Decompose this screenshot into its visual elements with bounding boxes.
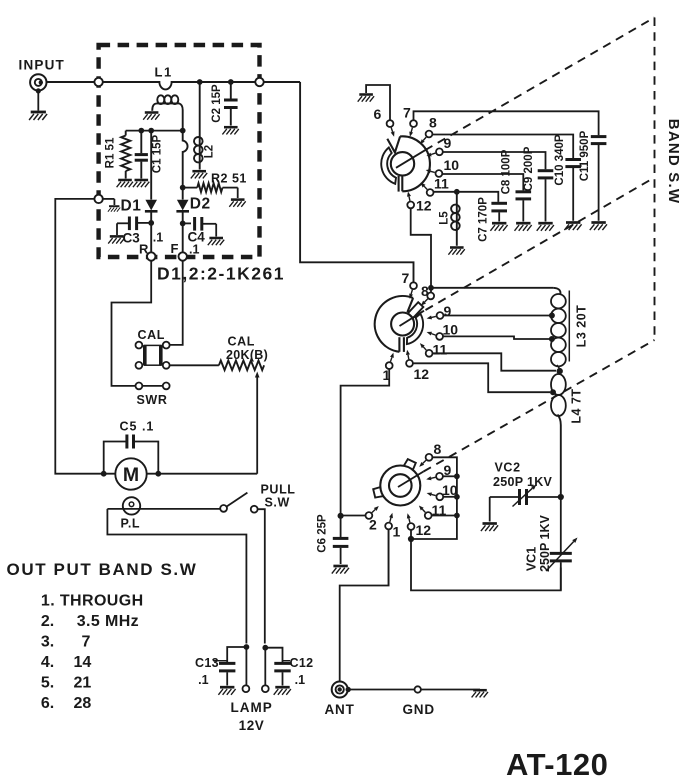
capacitor C11 950P <box>591 137 607 221</box>
svg-text:INPUT: INPUT <box>19 58 66 73</box>
capacitor C10 340P <box>565 160 581 221</box>
ground at C4 <box>208 238 224 245</box>
wafer a contact 12 arrow <box>407 192 411 201</box>
svg-text:ANT: ANT <box>325 702 355 717</box>
wafer c contact 1 <box>385 523 392 530</box>
label ANT <box>325 702 355 717</box>
resistor R1 51 <box>121 131 130 179</box>
inductor L2 <box>194 82 203 170</box>
wire wafer b contact 8 to L3 top <box>431 287 553 289</box>
label L4 7T <box>570 388 584 423</box>
node main line at box left edge <box>94 78 102 86</box>
label R <box>139 242 149 257</box>
junction row / pickup right end <box>180 128 185 133</box>
label GND <box>403 702 435 717</box>
wire wafer a contact 11 to C7 <box>434 192 499 202</box>
junction bus / 9 <box>455 474 460 479</box>
label 1 (wafer b) <box>383 367 391 383</box>
label 12 (wafer b) <box>414 366 430 382</box>
svg-text:VC2: VC2 <box>495 461 521 475</box>
svg-text:SWR: SWR <box>137 393 168 407</box>
wire D1 to node R <box>150 223 152 253</box>
capacitor C4 .1 <box>183 217 217 237</box>
switch PULL S.W contact left <box>220 505 227 512</box>
variable capacitor VC2 250P 1KV <box>490 485 537 522</box>
ground at C13 <box>218 687 235 695</box>
contact CAL top-right <box>163 342 170 349</box>
L3 core dashed line <box>0 0 569 362</box>
wire wafer a contact 6 to ground <box>366 85 390 120</box>
ground at C12 <box>274 687 291 695</box>
capacitor C6 25P <box>333 516 349 564</box>
label .1 (C12) <box>295 673 305 687</box>
label OUT PUT BAND S.W <box>7 560 198 579</box>
rotary wafer c wiper line <box>398 472 424 488</box>
wire wafer b contact 10 to L3 tap <box>443 336 552 339</box>
ground at C7 <box>490 223 507 231</box>
ground at L5 <box>448 248 464 255</box>
pickup winding of coupler <box>152 95 182 130</box>
svg-text:LAMP: LAMP <box>231 700 273 715</box>
svg-text:D1,2:2-1K261: D1,2:2-1K261 <box>157 264 285 284</box>
label C1 15P <box>152 134 164 173</box>
svg-text:CAL: CAL <box>228 335 256 349</box>
ground at C2 <box>222 127 238 134</box>
svg-text:C4: C4 <box>188 230 206 245</box>
junction main line / C2 <box>228 80 233 85</box>
legend 4. 14 <box>41 654 91 671</box>
label CAL (pot) <box>228 335 256 349</box>
wafer c contact 11 <box>425 512 432 519</box>
wire GND terminal to ground <box>421 689 480 691</box>
wire VC2 to main vertical <box>527 496 561 498</box>
label C10 340P <box>554 134 566 185</box>
svg-text:9: 9 <box>444 135 452 151</box>
ANT connector <box>332 682 351 698</box>
wafer a contact 11 <box>427 189 434 196</box>
label C4 <box>188 230 206 245</box>
label C2 15P <box>211 84 223 123</box>
meter M <box>115 458 146 489</box>
band switch gang dashed line (right vertical) <box>654 18 656 341</box>
wafer a contact 10 arrow <box>426 169 435 173</box>
ground at input connector <box>29 112 47 120</box>
svg-text:.1: .1 <box>153 231 163 245</box>
svg-text:CAL: CAL <box>138 328 166 342</box>
svg-text:VC1: VC1 <box>525 547 539 571</box>
wafer a contact 11 arrow <box>421 183 428 190</box>
svg-text:GND: GND <box>403 702 435 717</box>
wire D2 branch with loop <box>183 131 188 200</box>
label C13 <box>195 656 219 670</box>
contact SWR left <box>136 383 143 390</box>
svg-text:C13: C13 <box>195 656 219 670</box>
ground at VC2 <box>481 524 498 532</box>
label 9 (wafer c) <box>444 462 452 478</box>
label .1 (C3) <box>153 231 163 245</box>
junction row / D1 branch <box>149 128 154 133</box>
capacitor C8 100P <box>516 192 532 222</box>
node F on box edge <box>179 252 187 260</box>
junction bus / 11 <box>455 513 460 518</box>
ground at C6 <box>332 566 349 574</box>
svg-text:8: 8 <box>429 115 437 131</box>
junction row / C1 <box>139 128 144 133</box>
band switch gang dashed line (wafer a) <box>425 18 655 151</box>
svg-text:L5: L5 <box>439 211 451 225</box>
svg-text:.1: .1 <box>189 243 199 257</box>
wafer c contact 9 <box>436 473 443 480</box>
label 8 (wafer a) <box>429 115 437 131</box>
inductor L4 7T <box>551 374 566 494</box>
wire input connector to ground <box>37 91 39 111</box>
ground at wafer a contact 6 <box>358 95 374 102</box>
svg-text:1. THROUGH: 1. THROUGH <box>41 593 144 610</box>
wafer a contact 7 <box>410 120 417 127</box>
wire wafer b contact 11 to L3 bottom <box>433 353 557 370</box>
label C12 <box>290 656 314 670</box>
label 12V <box>239 718 265 733</box>
label VC2 <box>495 461 521 475</box>
wafer c contact 11 arrow <box>419 506 425 513</box>
label 6 (wafer a) <box>374 106 382 122</box>
wire meter right side to pot wiper <box>147 473 257 475</box>
wire D2 to node F <box>182 223 184 252</box>
label C6 25P <box>317 514 329 553</box>
label C9 200P <box>523 146 535 191</box>
label C5 .1 <box>120 420 155 434</box>
junction lamp line right / C12 <box>263 645 268 650</box>
wafer c contact 10 arrow <box>427 493 436 497</box>
inductor L1 label <box>155 65 173 80</box>
wafer b contact 12 <box>406 360 413 367</box>
wafer b contact 12 arrow <box>406 350 410 359</box>
rotary wafer a rotor body <box>387 136 430 191</box>
wafer a contact 7 arrow <box>409 128 413 137</box>
wire node to internal ground <box>103 199 115 205</box>
junction L3 bottom / L4 top <box>557 368 562 373</box>
label S.W <box>265 496 290 510</box>
svg-text:L1: L1 <box>155 65 173 80</box>
svg-text:7: 7 <box>402 270 410 286</box>
diode D1 <box>145 200 158 223</box>
wafer b contact 8 <box>427 293 434 300</box>
legend 5. 21 <box>41 675 91 692</box>
junction D2 / C4 <box>180 221 185 226</box>
wafer c contact 12 arrow <box>407 513 411 522</box>
junction wafer b contact 8 bus <box>429 285 434 290</box>
svg-text:PULL: PULL <box>261 483 296 497</box>
wafer b contact 10 <box>436 333 443 340</box>
wire contact 12 down to VC1 bottom <box>411 539 561 590</box>
svg-text:C2 15P: C2 15P <box>211 84 223 123</box>
svg-text:L4 7T: L4 7T <box>570 388 584 423</box>
label AT-120 <box>506 747 608 782</box>
svg-text:250P 1KV: 250P 1KV <box>538 514 552 571</box>
rotary wafer a wiper line <box>396 149 427 168</box>
label BAND S.W <box>665 119 682 204</box>
svg-text:4.: 4. <box>41 654 54 671</box>
legend 1. THROUGH <box>41 593 144 610</box>
wafer a contact 9 <box>436 148 443 155</box>
switch PULL S.W contact right <box>251 506 258 513</box>
contact CAL bottom-left <box>136 362 143 369</box>
inductor L3 20T <box>551 288 566 371</box>
variable capacitor VC1 250P 1KV <box>546 497 578 590</box>
junction C6 node <box>338 513 343 518</box>
junction meter wire / C5 left <box>101 471 106 476</box>
wire wafer b contact 1 down to C6 node <box>341 369 390 516</box>
svg-text:3.5 MHz: 3.5 MHz <box>77 613 139 630</box>
wire wafer a contact 7 to C11 <box>414 111 599 135</box>
directional coupler module box (dashed) <box>99 45 260 257</box>
svg-text:C9 200P: C9 200P <box>523 146 535 191</box>
label VC1 <box>525 547 539 571</box>
wafer b contact 10 arrow <box>427 332 436 336</box>
wafer a contact 6 <box>387 120 394 127</box>
svg-text:7: 7 <box>82 634 91 651</box>
svg-text:C8 100P: C8 100P <box>501 149 513 194</box>
label 10 (wafer b) <box>443 322 459 338</box>
lamp terminal left <box>243 647 250 692</box>
wire wafer b contact 9 to L3 tap <box>443 315 552 317</box>
label 11 (wafer a) <box>434 176 449 192</box>
junction L4 tap 12 <box>551 390 556 395</box>
label SWR <box>137 393 168 407</box>
wafer c contact 2 <box>366 512 373 519</box>
wire wafer a contact 8 to C10 <box>432 135 573 159</box>
label C3 <box>123 231 141 246</box>
label R1 51 <box>105 137 117 168</box>
svg-text:11: 11 <box>433 342 448 358</box>
svg-text:12: 12 <box>414 366 430 382</box>
svg-text:10: 10 <box>443 322 459 338</box>
wafer b contact 9 arrow <box>427 316 436 320</box>
svg-text:R2 51: R2 51 <box>211 172 247 186</box>
svg-text:2: 2 <box>369 517 377 533</box>
label D2 <box>190 196 211 213</box>
label 2 (wafer c) <box>369 517 377 533</box>
wire ANT to GND terminal <box>348 689 415 691</box>
label L3 20T <box>575 305 589 348</box>
wafer b contact 11 <box>426 350 433 357</box>
svg-text:1: 1 <box>393 524 401 540</box>
junction VC2 / vertical <box>558 494 563 499</box>
label PULL <box>261 483 296 497</box>
label C7 170P <box>477 197 489 242</box>
ground at C11 <box>590 223 607 231</box>
wire wafer c contact 11 to bus <box>432 515 457 517</box>
wafer a contact 10 <box>436 170 443 177</box>
svg-text:R1 51: R1 51 <box>105 137 117 168</box>
svg-text:21: 21 <box>74 675 92 692</box>
wire node F down to CAL switch <box>170 261 183 345</box>
wafer a contact 6 arrow <box>391 128 395 137</box>
label .1 (C13) <box>198 673 208 687</box>
svg-text:L2: L2 <box>204 145 216 158</box>
junction D2 branch / R2 <box>180 185 185 190</box>
wire D1 branch <box>150 131 152 200</box>
legend 6. 28 <box>41 695 91 712</box>
svg-text:20K(B): 20K(B) <box>226 348 268 362</box>
junction contact 11 bus / L5 <box>454 189 459 194</box>
svg-text:28: 28 <box>74 695 92 712</box>
wafer c contact 2 arrow <box>372 506 379 513</box>
wafer c contact 10 <box>436 493 443 500</box>
label P.L <box>121 517 141 531</box>
svg-text:C12: C12 <box>290 656 314 670</box>
svg-text:R: R <box>139 242 149 257</box>
svg-text:12: 12 <box>416 198 432 214</box>
wafer c contact 8 arrow <box>419 460 426 467</box>
capacitor C5 .1 <box>104 435 159 474</box>
label LAMP <box>231 700 273 715</box>
svg-text:S.W: S.W <box>265 496 290 510</box>
wire shield node to meter (left) <box>55 199 115 474</box>
legend 3. 7 <box>41 634 91 651</box>
label R2 51 <box>211 172 247 186</box>
junction L3 tap 10 <box>549 337 554 342</box>
contact CAL top-left <box>136 342 143 349</box>
label 20K(B) <box>226 348 268 362</box>
svg-text:11: 11 <box>434 176 449 192</box>
wire wafer c contact 10 to bus <box>443 496 457 498</box>
svg-text:6.: 6. <box>41 695 54 712</box>
label C11 950P <box>579 130 591 181</box>
wafer c contact 1 arrow <box>389 513 393 522</box>
wafer b contact 7 arrow <box>409 290 413 299</box>
svg-text:8: 8 <box>434 441 442 457</box>
svg-text:8: 8 <box>421 283 429 299</box>
wire node R down-left to SWR switch <box>112 261 152 386</box>
node R on box edge <box>147 252 155 260</box>
resistor R2 51 <box>183 183 238 198</box>
label 10 (wafer a) <box>444 157 460 173</box>
junction contact 12 / bus bottom <box>408 536 413 541</box>
ground at pickup winding left end <box>143 113 159 120</box>
svg-text:7: 7 <box>403 105 411 121</box>
GND terminal <box>415 686 421 692</box>
wire wafer c contact 1 down <box>388 529 390 585</box>
label 12 (wafer a) <box>416 198 432 214</box>
input connector J1 <box>30 74 46 93</box>
wafer c contact 12 <box>408 523 415 530</box>
rotary wafer b wiper line <box>400 311 425 326</box>
rotary wafer b rotor body <box>375 296 413 352</box>
wafer a contact 12 <box>407 202 414 209</box>
wire PULL switch down to lamp line <box>258 509 265 643</box>
wire P.L left loop down to lamp line <box>107 509 246 644</box>
wire main line through box with L1 dip <box>46 82 300 89</box>
contact SWR right <box>163 383 170 390</box>
ground at GND wire end <box>472 690 488 697</box>
band switch gang dashed line (wafer c) <box>424 340 655 472</box>
rotary wafer c outer circle <box>380 466 420 506</box>
wafer b contact 7 <box>410 282 417 289</box>
wafer b contact 1 <box>386 362 393 369</box>
svg-text:M: M <box>123 464 139 486</box>
label 7 (wafer a) <box>403 105 411 121</box>
label L2 <box>204 145 216 158</box>
capacitor C9 200P <box>538 171 554 222</box>
ground at R1 <box>117 180 133 187</box>
svg-text:OUT PUT BAND S.W: OUT PUT BAND S.W <box>7 560 198 579</box>
label L5 <box>439 211 451 225</box>
capacitor C2 15P <box>224 82 238 126</box>
rotary wafer c tab top <box>404 459 416 470</box>
svg-text:L3 20T: L3 20T <box>575 305 589 348</box>
junction meter wire / C5 right <box>156 471 161 476</box>
label 250P 1KV (VC2) <box>493 475 553 489</box>
svg-text:6: 6 <box>374 106 382 122</box>
contact CAL bottom-right <box>163 362 170 369</box>
ground inside box at shield node <box>108 206 120 212</box>
svg-text:12: 12 <box>416 522 432 538</box>
svg-text:250P 1KV: 250P 1KV <box>493 475 553 489</box>
label F <box>171 241 179 256</box>
ground at L2 <box>191 171 207 178</box>
band switch gang dashed line (wafer b) <box>426 178 655 311</box>
wire junction row R1-C1-D1-coil <box>126 130 183 132</box>
wire main line to band switch wafer b contact 7 <box>300 82 413 282</box>
svg-text:12V: 12V <box>239 718 265 733</box>
ground at C9 <box>537 223 554 231</box>
inductor L5 <box>451 192 460 246</box>
label 1 (wafer c) <box>393 524 401 540</box>
label 11 (wafer b) <box>433 342 448 358</box>
capacitor C13 .1 <box>213 647 246 686</box>
label C8 100P <box>501 149 513 194</box>
rotary wafer b inner circle <box>391 313 414 336</box>
svg-text:5.: 5. <box>41 675 54 692</box>
svg-text:C1 15P: C1 15P <box>152 134 164 173</box>
wafer b contact 11 arrow <box>420 343 426 350</box>
switch CAL wafer <box>145 345 161 365</box>
wire wafer a contact 9 to C9 <box>443 152 546 169</box>
ground at C8 <box>515 223 532 231</box>
node main line at box right edge <box>255 78 263 86</box>
svg-text:C5 .1: C5 .1 <box>120 420 155 434</box>
wafer a contact 8 arrow <box>420 137 426 144</box>
capacitor C12 .1 <box>265 648 290 686</box>
label D1 <box>121 198 142 215</box>
label 8 (wafer c) <box>434 441 442 457</box>
wafer a contact 8 <box>426 131 433 138</box>
svg-text:C6 25P: C6 25P <box>317 514 329 553</box>
rotary wafer a C-arc <box>381 148 396 184</box>
svg-text:D1: D1 <box>121 198 142 215</box>
wire wafer a contact 10 to C8 <box>442 174 523 190</box>
ground at C1 <box>133 180 149 187</box>
wafer b contact 8 arrow <box>421 299 428 306</box>
rotary wafer b C-arc <box>407 314 423 344</box>
wafer b contact 1 arrow <box>390 353 394 362</box>
rotary wafer c tab lower-left <box>373 487 383 498</box>
svg-text:9: 9 <box>444 303 452 319</box>
wire wafer b contact 12 to L4 tap <box>413 363 550 392</box>
label 250P 1KV (VC1) <box>538 514 552 571</box>
ground at C10 <box>564 223 581 231</box>
wire wafer c contact 2 to C6 node <box>341 515 366 517</box>
label 9 (wafer b) <box>444 303 452 319</box>
ground at R2 <box>229 200 245 207</box>
junction bus / 10 <box>455 494 460 499</box>
node on box left edge (shield) <box>94 195 102 203</box>
wire wafer c contact 9 to bus <box>443 475 457 477</box>
junction L3 tap 9 <box>549 313 554 318</box>
wafer c contact 8 <box>426 454 433 461</box>
svg-text:.1: .1 <box>295 673 305 687</box>
